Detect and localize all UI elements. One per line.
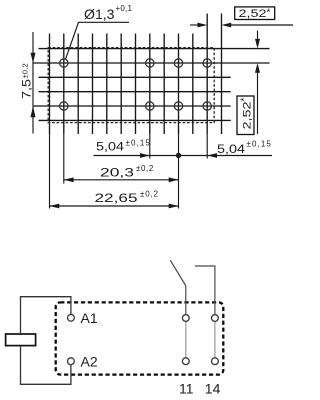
svg-text:*: * [240,98,251,102]
svg-text:A2: A2 [81,353,98,369]
hole H1 [60,59,68,67]
switch blade (normally open) [170,260,186,286]
dimension 2,52 pitch (right side, boxed, vertical) [257,31,259,135]
svg-text:7,5: 7,5 [20,79,34,99]
wire coil bottom to A2 [21,346,71,385]
svg-text:2,52: 2,52 [242,102,254,130]
dimension 2,52 pitch (top right, boxed) [190,24,293,26]
switch common riser from 11 [185,286,187,315]
svg-text:±0,2: ±0,2 [21,63,30,78]
hole H4 [203,59,211,67]
fixed contact arm from 14 [195,266,215,315]
hole H2 [146,59,154,67]
extension lines below grid [50,134,208,209]
svg-text:5,04: 5,04 [217,142,245,156]
svg-text:±0,15: ±0,15 [126,139,151,148]
terminal 11 top [182,315,189,322]
dimension 22,65 [50,205,179,207]
svg-text:+0,1: +0,1 [116,4,133,13]
dimension 7,5 (vertical, left) [32,32,34,134]
svg-text:*: * [267,8,271,19]
svg-text:14: 14 [205,380,221,396]
svg-text:2,52: 2,52 [239,8,267,20]
dimension 5,04 (left) and 5,04 (right) chain [94,155,273,157]
hole diameter callout Ø1,3 +0,1 [66,4,133,59]
svg-text:A1: A1 [81,310,98,326]
hole H3 [174,59,182,67]
hole H7 [174,102,182,110]
terminal 11 bottom [182,358,189,365]
terminal 14 bottom [212,358,219,365]
svg-text:±0,2: ±0,2 [140,190,159,199]
wire coil top to A1 [21,297,71,334]
relay schematic dashed enclosure [56,302,224,374]
wire contact column 14 [214,322,216,358]
dimension 20,3 [64,179,179,181]
relay body dashed outline [48,48,214,123]
terminal A1 [68,314,75,321]
svg-text:5,04: 5,04 [96,140,124,154]
terminal 14 top [212,315,219,322]
coil K1 [6,334,36,346]
PCB grid vertical lines [50,14,222,135]
wire contact column 11 [185,322,187,358]
svg-text:±0,15: ±0,15 [247,140,272,149]
hole H8 [203,102,211,110]
svg-text:Ø1,3: Ø1,3 [84,7,115,22]
svg-text:±0,2: ±0,2 [136,164,154,173]
PCB grid horizontal lines [33,49,270,121]
svg-text:11: 11 [179,380,194,396]
hole H6 [146,102,154,110]
svg-text:20,3: 20,3 [100,166,134,180]
svg-text:22,65: 22,65 [95,191,138,205]
hole H5 [60,102,68,110]
terminal A2 [68,358,75,365]
